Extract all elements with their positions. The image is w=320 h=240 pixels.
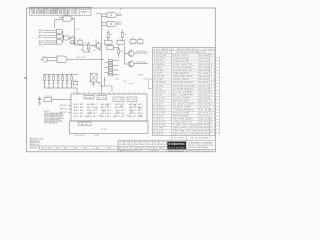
svg-text:SWITCH 74LS00: SWITCH 74LS00: [173, 100, 190, 102]
svg-text:CONN 2N3904: CONN 2N3904: [173, 109, 194, 111]
svg-text:16: 16: [153, 100, 155, 102]
table item column: [215, 58, 219, 136]
parts list table: [153, 48, 216, 136]
svg-text:Y2 3.579: Y2 3.579: [45, 96, 52, 98]
svg-text:100-1042: 100-1042: [198, 73, 209, 75]
svg-text:GND: GND: [143, 79, 147, 81]
svg-text:DIODE 22PF: DIODE 22PF: [173, 106, 192, 108]
svg-text:Y15: Y15: [158, 97, 165, 99]
svg-text:COIL 22PF: COIL 22PF: [173, 91, 193, 93]
svg-text:19: 19: [153, 109, 155, 111]
svg-text:T1: T1: [118, 39, 121, 41]
wire Y2 to U5: [52, 99, 72, 101]
svg-text:22: 22: [153, 118, 155, 120]
svg-text:DRN: DRN: [119, 142, 123, 144]
svg-text:R27: R27: [158, 134, 164, 136]
svg-text:24: 24: [153, 124, 155, 126]
svg-text:IC 22PF: IC 22PF: [173, 94, 194, 96]
svg-text:Y20: Y20: [158, 112, 166, 114]
svg-text:U6: U6: [158, 70, 164, 72]
svg-text:DRN: DRN: [147, 142, 152, 144]
svg-text:J14: J14: [158, 94, 163, 96]
svg-text:COIL 1/4W 5%: COIL 1/4W 5%: [173, 121, 193, 123]
svg-text:C3: C3: [158, 61, 163, 63]
title bottom row: [118, 149, 215, 152]
svg-text:R6: R6: [80, 49, 83, 51]
svg-text:REV B: REV B: [188, 150, 195, 152]
svg-text:4K: 4K: [52, 83, 54, 85]
svg-text:Q2: Q2: [158, 58, 165, 60]
svg-text:Q2 2N3906: Q2 2N3906: [136, 51, 146, 53]
svg-text:RDY: RDY: [60, 109, 67, 111]
svg-text:T1: T1: [139, 38, 142, 40]
svg-text:Q1: Q1: [158, 55, 166, 57]
svg-text:IC 16V 10UF: IC 16V 10UF: [173, 103, 194, 105]
component C8: [73, 80, 78, 85]
svg-text:100-1091: 100-1091: [198, 94, 209, 96]
svg-text:Y23: Y23: [158, 121, 166, 123]
svg-text:21: 21: [153, 115, 155, 117]
svg-text:SYSTEMS: SYSTEMS: [168, 147, 185, 149]
resistor R5: [88, 42, 95, 53]
svg-text:R29: R29: [117, 22, 121, 24]
svg-text:TP4: TP4: [115, 79, 119, 81]
svg-text:Y12: Y12: [158, 88, 163, 90]
wire bus to strip: [102, 58, 105, 60]
oscillator E1: [41, 57, 48, 62]
zone tick top: [120, 8, 122, 10]
svg-text:CLK OUT: CLK OUT: [76, 57, 85, 59]
svg-text:100-1105: 100-1105: [198, 100, 209, 102]
svg-text:18: 18: [153, 106, 155, 108]
svg-text:DRN: DRN: [153, 142, 158, 144]
svg-text:25: 25: [153, 128, 155, 130]
filter FL1: [130, 38, 136, 46]
svg-text:11: 11: [153, 85, 155, 87]
svg-text:R4: R4: [158, 64, 165, 66]
label C3: [84, 43, 87, 45]
svg-text:+5V: +5V: [93, 50, 97, 52]
svg-text:Q9: Q9: [158, 79, 163, 81]
svg-text:J24: J24: [158, 124, 165, 126]
crystal Y2: [44, 96, 52, 102]
OR gate U2E: [63, 36, 72, 40]
ground G3: [38, 102, 41, 106]
svg-text:4K: 4K: [66, 83, 68, 85]
company logo: [167, 142, 186, 150]
zone tick right: [213, 79, 215, 81]
svg-text:CR2: CR2: [78, 39, 82, 41]
svg-text:Q2 2N3906: Q2 2N3906: [136, 62, 146, 64]
svg-text:QTY REQD: QTY REQD: [174, 138, 185, 140]
svg-text:R22: R22: [158, 118, 164, 120]
svg-text:R5: R5: [158, 67, 163, 69]
general notes box: [30, 7, 92, 15]
wire Q2Q3 base join: [124, 46, 126, 64]
wire Q1 emitter: [99, 48, 101, 50]
buffer gates U3A U3B: [102, 13, 122, 27]
capacitor C9: [38, 97, 41, 102]
svg-text:17: 17: [153, 103, 155, 105]
svg-text:A7: A7: [65, 14, 69, 17]
title block grid: [118, 135, 215, 151]
svg-text:SEE SHEET 2: SEE SHEET 2: [74, 135, 86, 137]
net label row: [115, 79, 133, 86]
svg-text:100-1084: 100-1084: [198, 91, 210, 93]
NAND gate U1: [55, 14, 75, 29]
svg-text:R4: R4: [72, 36, 75, 38]
svg-text:20: 20: [153, 112, 155, 114]
input signal lines: [39, 29, 57, 46]
svg-text:100-1140: 100-1140: [198, 115, 209, 117]
svg-text:100-1049: 100-1049: [198, 76, 210, 78]
svg-text:PCB: PCB: [101, 129, 107, 131]
svg-text:DIODE CER .1UF: DIODE CER .1UF: [173, 70, 193, 72]
diode network CR2: [71, 36, 88, 45]
svg-text:26: 26: [153, 131, 155, 133]
svg-text:4K: 4K: [57, 83, 59, 85]
svg-text:+5V: +5V: [75, 29, 80, 31]
svg-text:100-1000: 100-1000: [198, 55, 210, 57]
svg-text:4K: 4K: [48, 83, 50, 85]
svg-text:RDY: RDY: [60, 105, 67, 107]
svg-text:1:1: 1:1: [207, 150, 214, 152]
svg-text:100-1077: 100-1077: [198, 88, 212, 90]
U5 input labels: [60, 105, 71, 114]
svg-text:DRN: DRN: [130, 142, 134, 144]
svg-text:10: 10: [153, 82, 155, 84]
svg-text:Q7: Q7: [158, 73, 163, 75]
connector J2 strip: [105, 60, 119, 76]
svg-text:DIODE 2N3904: DIODE 2N3904: [173, 67, 192, 69]
svg-text:100-1147: 100-1147: [198, 118, 212, 120]
microcomputer U5: [71, 92, 147, 121]
label +5V: [93, 50, 97, 52]
relay K1: [91, 74, 98, 83]
svg-text:XSTR CER .1UF LONG NOTE ROW: XSTR CER .1UF LONG NOTE ROW: [173, 131, 212, 133]
svg-text:DRN: DRN: [159, 142, 166, 144]
svg-text:100-1112: 100-1112: [198, 103, 210, 105]
svg-text:X: X: [131, 44, 133, 46]
delay line DL2: [117, 39, 125, 47]
svg-text:Y1: Y1: [108, 44, 111, 46]
svg-text:100-1119: 100-1119: [198, 106, 209, 108]
svg-text:XSTR 16V 10UF: XSTR 16V 10UF: [173, 112, 190, 114]
svg-text:100-1014: 100-1014: [198, 61, 211, 63]
svg-text:J18: J18: [158, 106, 164, 108]
svg-text:470: 470: [120, 51, 124, 53]
svg-text:100-1007: 100-1007: [198, 58, 210, 60]
svg-text:100-1126: 100-1126: [198, 109, 212, 111]
svg-text:4K: 4K: [43, 83, 45, 85]
margin dot a: [8, 45, 9, 46]
resistor R9: [118, 47, 125, 58]
svg-text:COIL 22PF: COIL 22PF: [173, 97, 191, 99]
svg-text:CONN 3.3K LONG NOTE ROW: CONN 3.3K LONG NOTE ROW: [173, 124, 212, 126]
wire U1 to bus: [96, 13, 102, 15]
svg-text:Y21: Y21: [158, 115, 163, 117]
svg-text:Y16: Y16: [158, 100, 164, 102]
svg-text:COIL 1/4W 5%: COIL 1/4W 5%: [173, 64, 194, 66]
svg-text:Q13: Q13: [158, 91, 165, 93]
svg-text:REF DES: REF DES: [159, 52, 169, 54]
zone tick left: [24, 77, 26, 79]
wire U1 output down: [74, 19, 76, 45]
svg-text:15: 15: [153, 97, 155, 99]
svg-text:1K: 1K: [124, 34, 127, 36]
title text: [187, 140, 215, 149]
resistor network RN1: [43, 74, 78, 88]
wire node B: [114, 47, 119, 49]
svg-text:DRN: DRN: [135, 142, 140, 144]
revision notes: [30, 138, 44, 150]
transistor Q3: [125, 61, 149, 67]
bottom reference strip: [40, 146, 119, 149]
wire vertical bus: [101, 14, 103, 94]
svg-text:13: 13: [153, 91, 155, 93]
svg-text:THIS SCHEMATIC DIAGRAM SHOWS A: THIS SCHEMATIC DIAGRAM SHOWS ALL LOGIC: [31, 12, 79, 15]
svg-text:100-1154: 100-1154: [198, 121, 212, 123]
svg-text:T1: T1: [105, 39, 108, 41]
sheet frame: [27, 8, 216, 152]
delay line DL1: [105, 39, 113, 47]
svg-text:100-1133: 100-1133: [198, 112, 209, 114]
svg-text:U11: U11: [158, 85, 164, 87]
svg-text:Y26: Y26: [158, 131, 164, 133]
svg-text:27: 27: [153, 134, 155, 136]
svg-text:R19: R19: [158, 109, 166, 111]
svg-text:MICROCOMPUTER SYS: MICROCOMPUTER SYS: [177, 49, 199, 51]
svg-text:Y8: Y8: [158, 76, 165, 78]
svg-text:4.7K: 4.7K: [90, 46, 95, 48]
svg-text:1K: 1K: [110, 34, 113, 36]
svg-text:CR10: CR10: [158, 82, 166, 84]
resistor R8: [121, 30, 126, 41]
svg-text:X: X: [139, 44, 141, 46]
wire strip bottom: [101, 77, 112, 92]
svg-text:4K: 4K: [61, 83, 63, 85]
svg-text:C17: C17: [158, 103, 163, 105]
wire RN1 to U5: [76, 88, 78, 94]
svg-text:14: 14: [153, 94, 155, 96]
svg-text:TP6: TP6: [129, 84, 133, 86]
svg-text:PARTS LIST: PARTS LIST: [161, 48, 174, 51]
svg-text:100-1028: 100-1028: [198, 67, 210, 69]
svg-text:DWG NO: DWG NO: [151, 150, 159, 152]
svg-text:C3: C3: [84, 43, 87, 45]
svg-text:100-1063: 100-1063: [198, 82, 209, 84]
svg-text:R29: R29: [117, 13, 121, 15]
U6 bottom labels: [74, 134, 99, 137]
ground G1: [92, 82, 95, 87]
svg-text:23: 23: [153, 121, 155, 123]
svg-text:100-1021: 100-1021: [198, 64, 210, 66]
wire gate stack joins: [63, 31, 64, 42]
svg-text:CR25: CR25: [158, 128, 164, 130]
transistor Q1: [91, 40, 101, 49]
margin dot b: [8, 75, 9, 76]
svg-text:100-1070: 100-1070: [198, 85, 210, 87]
svg-text:CONN 3.3K: CONN 3.3K: [173, 61, 189, 63]
svg-text:SOCKET 1/4W 5%: SOCKET 1/4W 5%: [173, 55, 190, 57]
svg-text:12: 12: [153, 88, 155, 90]
resistor R7: [107, 30, 112, 41]
svg-text:100-1035: 100-1035: [198, 70, 211, 72]
svg-text:100-1056: 100-1056: [198, 79, 209, 81]
ground G2: [98, 83, 101, 85]
svg-text:100-5000-01: 100-5000-01: [168, 150, 185, 152]
svg-text:NOTES:: NOTES:: [44, 111, 51, 113]
zone tick bottom: [120, 150, 122, 152]
svg-text:SCHEMATIC DIAGRAM: SCHEMATIC DIAGRAM: [189, 142, 214, 145]
svg-text:SEE NOTE: SEE NOTE: [80, 9, 90, 11]
AND gate U4: [42, 56, 102, 63]
svg-text:SYNERTEK: SYNERTEK: [168, 142, 185, 146]
svg-text:SWITCH 2N3904: SWITCH 2N3904: [173, 82, 194, 84]
svg-text:100-1098: 100-1098: [198, 97, 210, 99]
svg-text:CONN 1N914: CONN 1N914: [173, 58, 190, 60]
component Y1 box: [107, 44, 114, 50]
svg-text:4K: 4K: [70, 83, 72, 85]
label +5V top: [75, 29, 80, 31]
board outline U6: [70, 121, 149, 134]
svg-text:100-5000: 100-5000: [202, 49, 213, 51]
svg-text:DIODE 1N914: DIODE 1N914: [173, 79, 190, 81]
notes paragraph: [44, 111, 64, 124]
table zone tab: [148, 79, 152, 89]
label R6: [80, 49, 83, 51]
svg-text:T1: T1: [131, 38, 134, 40]
NAND gates U2A-U2D: [57, 29, 63, 44]
net label near table: [138, 74, 148, 81]
filter FL2: [138, 38, 143, 46]
svg-text:SIZE D: SIZE D: [133, 150, 141, 152]
svg-text:C8: C8: [73, 80, 76, 82]
svg-text:DRN: DRN: [141, 142, 146, 144]
svg-text:X: X: [118, 45, 120, 47]
svg-text:Q1: Q1: [95, 40, 98, 42]
svg-text:MICROCOMPUTER SYSTEM: MICROCOMPUTER SYSTEM: [189, 145, 215, 147]
wire node A: [83, 45, 91, 52]
svg-text:J1: J1: [79, 124, 90, 126]
transistor Q2: [125, 51, 149, 57]
svg-text:SHEET 1 OF 2: SHEET 1 OF 2: [197, 150, 205, 152]
svg-text:TP5: TP5: [123, 81, 127, 83]
svg-text:DRN: DRN: [124, 142, 128, 144]
